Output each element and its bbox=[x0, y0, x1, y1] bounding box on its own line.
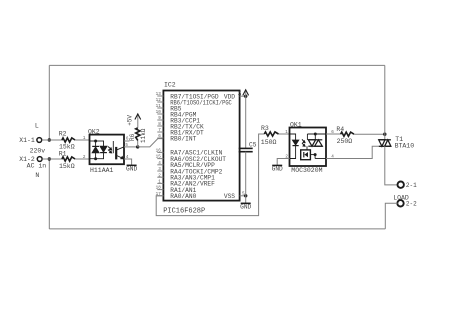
wire C5 to VSS bbox=[245, 152, 247, 196]
pin 12 RB6 stub bbox=[157, 101, 163, 103]
svg-text:3: 3 bbox=[158, 167, 161, 172]
wire OK1 pin2 to gnd bbox=[277, 159, 289, 166]
wire triac to X2-1 bbox=[385, 146, 398, 185]
node OK2 inner top bbox=[94, 140, 97, 143]
node VSS junction bbox=[244, 194, 247, 197]
wire node to IC pin6 bbox=[138, 139, 164, 147]
node junction L bbox=[48, 138, 51, 141]
resistor R3 bbox=[264, 132, 278, 136]
svg-text:8: 8 bbox=[158, 122, 161, 127]
wire left vertical lower (N to bottom rail) bbox=[48, 159, 50, 229]
diode OK1 LED bbox=[293, 140, 299, 145]
svg-text:R3: R3 bbox=[261, 125, 269, 132]
wire OK2 diode leg left bbox=[95, 141, 97, 159]
pin 17 RA0 stub bbox=[157, 195, 163, 197]
power +5V arrow R6 bbox=[137, 114, 139, 128]
wire OK2 collector bbox=[117, 147, 124, 150]
pin 18 RA1 stub bbox=[157, 189, 163, 191]
ic IC2 box bbox=[163, 91, 239, 201]
svg-text:4: 4 bbox=[158, 161, 161, 166]
wire R3 to OK1 pin1 bbox=[279, 133, 290, 135]
wire left vertical upper (L to top rail) bbox=[48, 65, 50, 140]
node OK1 pin6 bbox=[314, 133, 317, 136]
resistor R6 bbox=[136, 128, 140, 141]
svg-text:11: 11 bbox=[156, 104, 162, 109]
wire triac gate bbox=[326, 146, 379, 158]
svg-text:2-1: 2-1 bbox=[406, 182, 417, 189]
svg-text:X1-1: X1-1 bbox=[19, 137, 35, 144]
svg-text:MOC3020M: MOC3020M bbox=[291, 167, 322, 174]
svg-text:VSS: VSS bbox=[224, 193, 235, 200]
svg-text:12: 12 bbox=[156, 98, 162, 103]
svg-text:15kΩ: 15kΩ bbox=[59, 143, 75, 150]
svg-text:1: 1 bbox=[83, 136, 86, 141]
pin 13 RB7 stub bbox=[157, 95, 163, 97]
wire X1-2 to R1 bbox=[42, 158, 63, 160]
terminal X1-2 bbox=[37, 157, 42, 162]
wire RA0 to R3 bbox=[156, 195, 157, 197]
pin 16 RA7 stub bbox=[157, 151, 163, 153]
svg-text:AC in: AC in bbox=[27, 163, 47, 170]
wire OK1 pin6 rail bbox=[307, 133, 326, 135]
terminal X2-2 bbox=[397, 200, 403, 206]
svg-text:IC2: IC2 bbox=[164, 82, 176, 89]
node OK1 detector junction bbox=[314, 153, 317, 156]
wire R2 to OK2 pin1 bbox=[75, 139, 89, 141]
svg-text:11kΩ: 11kΩ bbox=[140, 128, 147, 143]
wire R6 bottom lead bbox=[137, 140, 139, 147]
wire OK1 pin6 to R4 bbox=[326, 133, 341, 135]
svg-text:6: 6 bbox=[158, 134, 161, 139]
resistor R2 bbox=[62, 138, 75, 142]
pin 2 RA3 stub bbox=[157, 176, 163, 178]
ground GND VSS bbox=[241, 202, 251, 204]
svg-text:VDD: VDD bbox=[224, 94, 235, 101]
terminal X2-1 bbox=[398, 182, 404, 188]
svg-text:RA0/AN0: RA0/AN0 bbox=[170, 193, 196, 200]
wire X1-1 to R2 bbox=[42, 139, 63, 141]
wire VDD to C5 bbox=[245, 96, 247, 148]
capacitor C5 bbox=[239, 147, 253, 149]
pin 14 VDD stub bbox=[240, 95, 246, 97]
optocoupler OK1 box bbox=[290, 128, 327, 167]
node triac MT2 junction bbox=[383, 133, 386, 136]
svg-text:2: 2 bbox=[158, 173, 161, 178]
svg-text:RB0/INT: RB0/INT bbox=[170, 135, 196, 142]
resistor R1 bbox=[62, 157, 75, 161]
svg-text:13: 13 bbox=[156, 92, 162, 97]
pin 6 RB0 stub bbox=[157, 137, 163, 139]
terminal X1-1 bbox=[37, 138, 42, 143]
node VDD junction bbox=[244, 95, 247, 98]
svg-text:2: 2 bbox=[83, 155, 86, 160]
optocoupler OK2 box bbox=[90, 135, 125, 165]
wire top rail to triac bbox=[384, 65, 386, 139]
svg-text:150Ω: 150Ω bbox=[261, 139, 277, 146]
wire X2-2 to bottom rail bbox=[385, 203, 397, 229]
pin 8 RB2 stub bbox=[157, 125, 163, 127]
pin 1 RA2 stub bbox=[157, 182, 163, 184]
wire OK2 diode leg right bbox=[103, 141, 105, 159]
wire bottom rail N bbox=[49, 228, 385, 230]
svg-text:R6: R6 bbox=[129, 133, 136, 141]
svg-text:1: 1 bbox=[285, 130, 288, 135]
wire RA0 net bbox=[156, 134, 264, 216]
svg-text:GND: GND bbox=[240, 204, 251, 211]
ground GND OK1 bbox=[272, 164, 282, 166]
pin 10 RB4 stub bbox=[157, 113, 163, 115]
pin 11 RB5 stub bbox=[157, 107, 163, 109]
svg-text:L: L bbox=[35, 123, 39, 130]
pin 4 RA5 stub bbox=[157, 164, 163, 166]
transistor OK2 base bar bbox=[115, 147, 117, 160]
emission arrows OK2 bbox=[108, 147, 111, 150]
power +5V arrow VDD bbox=[245, 90, 247, 96]
svg-text:2-2: 2-2 bbox=[406, 201, 417, 208]
wire detector to pin4 rail bbox=[310, 154, 315, 156]
wire R4 to triac node bbox=[354, 133, 385, 135]
svg-text:+5V: +5V bbox=[126, 115, 133, 126]
svg-text:BTA10: BTA10 bbox=[395, 142, 415, 149]
emission arrow OK1 bbox=[302, 139, 305, 142]
pin 7 RB1 stub bbox=[157, 131, 163, 133]
node R6 junction bbox=[136, 145, 139, 148]
wire OK2 inner bottom rail bbox=[90, 158, 105, 160]
svg-text:C5: C5 bbox=[249, 141, 257, 148]
svg-text:PIC16F628P: PIC16F628P bbox=[163, 207, 205, 215]
wire OK1 LED to pin2 bbox=[290, 146, 296, 159]
svg-text:9: 9 bbox=[158, 116, 161, 121]
svg-text:10: 10 bbox=[156, 110, 162, 115]
pin 9 RB3 stub bbox=[157, 119, 163, 121]
svg-text:15kΩ: 15kΩ bbox=[59, 163, 75, 170]
triac OK1 triangles bbox=[308, 139, 322, 141]
svg-text:7: 7 bbox=[158, 128, 161, 133]
wire OK2 base lead bbox=[112, 141, 114, 153]
svg-text:220v: 220v bbox=[30, 147, 46, 154]
pin 5 VSS stub bbox=[240, 195, 246, 197]
svg-text:GND: GND bbox=[126, 166, 137, 173]
ground GND OK2 bbox=[127, 164, 137, 166]
wire R1 to OK2 pin2 bbox=[75, 158, 89, 160]
wire OK2 pin4 to gnd bbox=[124, 159, 132, 165]
svg-text:18: 18 bbox=[156, 186, 162, 191]
svg-text:16: 16 bbox=[156, 149, 162, 154]
svg-text:R2: R2 bbox=[59, 131, 67, 138]
svg-text:GND: GND bbox=[272, 166, 283, 173]
wire OK1 pin4 rail bbox=[315, 158, 326, 160]
diode OK2 left (up) bbox=[92, 147, 99, 153]
svg-text:15: 15 bbox=[156, 155, 162, 160]
svg-text:H11AA1: H11AA1 bbox=[90, 167, 114, 174]
wire VSS to gnd bbox=[245, 196, 247, 204]
wire top rail L to triac bbox=[49, 64, 385, 66]
pin 3 RA4 stub bbox=[157, 170, 163, 172]
detector box OK1 bbox=[301, 150, 311, 160]
node OK2 inner bottom bbox=[94, 157, 97, 160]
resistor R4 bbox=[341, 132, 354, 136]
wire OK2 pin5 to node bbox=[124, 146, 138, 148]
triac T1 bbox=[379, 139, 391, 141]
svg-text:N: N bbox=[35, 172, 39, 179]
wire OK2 inner top rail bbox=[90, 140, 105, 142]
svg-text:14: 14 bbox=[238, 90, 243, 96]
wire OK1 pin1 inner bbox=[290, 134, 296, 140]
svg-text:1: 1 bbox=[158, 180, 161, 185]
pin 6 OK2 stub bbox=[124, 140, 130, 142]
svg-text:R4: R4 bbox=[336, 126, 344, 133]
node junction N bbox=[48, 157, 51, 160]
diode OK2 right (down) bbox=[100, 146, 107, 152]
svg-text:5: 5 bbox=[125, 143, 128, 148]
svg-text:250Ω: 250Ω bbox=[337, 138, 353, 145]
wire OK2 emitter bbox=[117, 156, 124, 159]
wire detector top to triac bbox=[306, 146, 308, 150]
pin 15 RA6 stub bbox=[157, 158, 163, 160]
